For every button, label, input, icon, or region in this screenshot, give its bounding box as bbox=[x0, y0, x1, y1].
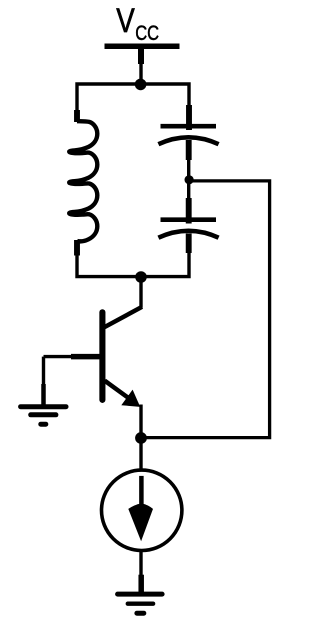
svg-text:V: V bbox=[116, 2, 135, 40]
svg-text:CC: CC bbox=[135, 21, 159, 45]
